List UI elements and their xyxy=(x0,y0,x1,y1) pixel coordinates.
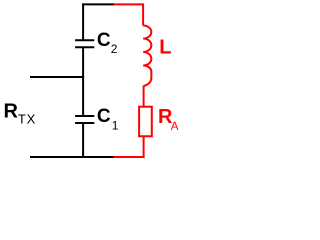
capacitor C2 bottom plate xyxy=(75,46,94,48)
wire red below resistor xyxy=(143,136,145,158)
inductor L xyxy=(143,26,151,86)
svg-text:C: C xyxy=(97,106,111,127)
wire left vertical upper segment xyxy=(82,3,84,40)
wire top horizontal (red part) and right vertical xyxy=(114,4,143,25)
wire bottom horizontal (black part) xyxy=(30,156,114,158)
capacitor C2 top plate xyxy=(75,39,94,41)
resistor RA box xyxy=(139,107,152,137)
capacitor C1 bottom plate xyxy=(75,122,94,124)
svg-text:1: 1 xyxy=(112,118,119,132)
wire left vertical lower segment xyxy=(82,123,84,157)
capacitor C1 top plate xyxy=(75,115,94,117)
wire bottom horizontal (red part) xyxy=(114,156,145,158)
svg-text:L: L xyxy=(159,37,171,59)
wire mid port stub xyxy=(30,76,84,78)
svg-text:TX: TX xyxy=(18,112,36,127)
svg-text:A: A xyxy=(171,121,179,133)
wire red between coil and resistor xyxy=(143,86,145,108)
svg-text:2: 2 xyxy=(111,42,118,56)
wire top horizontal (black part) xyxy=(82,3,114,5)
svg-text:R: R xyxy=(4,101,19,123)
wire left vertical middle segment xyxy=(82,47,84,116)
svg-text:C: C xyxy=(97,30,111,51)
